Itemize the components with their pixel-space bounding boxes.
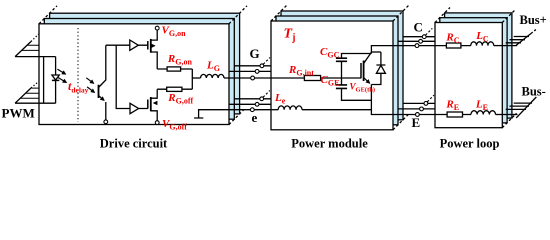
svg-text:Bus-: Bus- [522,85,546,99]
svg-text:Drive circuit: Drive circuit [100,137,168,151]
svg-text:E: E [412,115,421,130]
svg-text:Bus+: Bus+ [520,13,547,27]
svg-text:PWM: PWM [2,106,35,121]
svg-text:G: G [250,46,260,61]
svg-text:C: C [414,20,423,35]
svg-text:e: e [252,110,258,125]
svg-text:Power module: Power module [291,137,368,151]
svg-text:Power loop: Power loop [440,137,500,151]
